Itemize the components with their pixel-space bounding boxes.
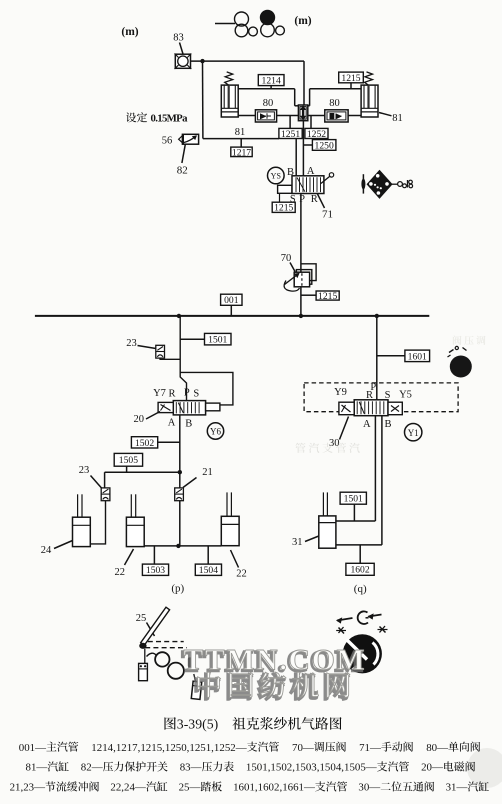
svg-text:A: A [363, 419, 371, 430]
svg-text:Y7: Y7 [153, 388, 166, 399]
svg-text:1504: 1504 [199, 565, 218, 576]
svg-text:1215: 1215 [318, 291, 337, 302]
svg-text:56: 56 [162, 136, 173, 147]
svg-text:81: 81 [392, 113, 403, 124]
svg-text:1215: 1215 [341, 73, 360, 84]
svg-text:71: 71 [322, 209, 333, 221]
svg-text:B: B [384, 419, 391, 430]
svg-text:(m): (m) [294, 15, 311, 27]
svg-text:S: S [193, 389, 199, 400]
svg-text:1217: 1217 [232, 147, 251, 158]
svg-text:0.15MPa: 0.15MPa [151, 112, 189, 124]
svg-text:R: R [168, 389, 175, 400]
svg-text:001: 001 [224, 295, 239, 306]
svg-text:1214: 1214 [262, 76, 281, 87]
svg-text:22: 22 [115, 567, 126, 578]
svg-text:1501: 1501 [208, 335, 227, 346]
svg-text:1602: 1602 [350, 565, 369, 576]
svg-text:1215: 1215 [274, 203, 293, 214]
svg-text:23: 23 [79, 465, 90, 476]
svg-text:82—: 82— [81, 762, 103, 774]
svg-text:1501: 1501 [344, 494, 363, 505]
svg-text:83—: 83— [180, 762, 202, 774]
svg-text:3-39(5): 3-39(5) [177, 717, 218, 733]
svg-text:23: 23 [126, 338, 137, 349]
svg-text:1250: 1250 [315, 140, 334, 151]
svg-text:20—: 20— [421, 762, 443, 774]
svg-text:1502: 1502 [135, 438, 154, 449]
svg-text:Y5: Y5 [399, 390, 412, 401]
svg-text:1252: 1252 [307, 129, 326, 140]
svg-text:1251: 1251 [281, 129, 300, 140]
svg-text:P: P [184, 388, 190, 399]
svg-text:21,23—: 21,23— [10, 782, 46, 794]
svg-text:(p): (p) [171, 583, 184, 595]
svg-text:24: 24 [41, 545, 52, 556]
svg-text:20: 20 [134, 414, 145, 425]
svg-text:R: R [311, 194, 318, 205]
svg-text:1214,1217,1215,1250,1251,1252—: 1214,1217,1215,1250,1251,1252— [91, 742, 246, 754]
svg-text:TTMN.COM: TTMN.COM [184, 644, 366, 676]
svg-text:71—: 71— [359, 742, 381, 754]
svg-text:Y9: Y9 [334, 387, 347, 398]
svg-text:82: 82 [177, 165, 188, 177]
svg-text:(m): (m) [121, 26, 138, 38]
svg-text:80—: 80— [426, 742, 448, 754]
svg-text:70: 70 [281, 253, 292, 264]
svg-text:25—: 25— [179, 782, 201, 794]
svg-text:80: 80 [329, 98, 340, 109]
svg-text:31—: 31— [446, 782, 468, 794]
svg-text:B: B [185, 419, 192, 430]
svg-text:81: 81 [235, 127, 246, 138]
svg-text:70—: 70— [292, 742, 314, 754]
svg-text:1601: 1601 [408, 351, 427, 362]
svg-text:31: 31 [292, 537, 303, 548]
svg-text:A: A [168, 418, 176, 429]
svg-text:P: P [299, 194, 305, 205]
svg-text:Y6: Y6 [210, 427, 221, 437]
svg-text:(q): (q) [354, 583, 367, 595]
svg-text:YS: YS [271, 172, 281, 181]
svg-text:80: 80 [263, 98, 274, 109]
svg-text:001—: 001— [19, 742, 46, 754]
svg-text:22,24—: 22,24— [110, 782, 146, 794]
svg-text:30—: 30— [358, 782, 380, 794]
svg-text:25: 25 [136, 613, 147, 624]
svg-text:21: 21 [202, 467, 213, 478]
svg-text:1505: 1505 [119, 455, 138, 466]
svg-text:1501,1502,1503,1504,1505—: 1501,1502,1503,1504,1505— [246, 762, 377, 774]
svg-text:1601,1602,1661—: 1601,1602,1661— [233, 782, 315, 794]
svg-text:83: 83 [173, 33, 184, 44]
svg-text:22: 22 [236, 569, 247, 580]
svg-text:81—: 81— [26, 762, 48, 774]
svg-text:1503: 1503 [146, 565, 165, 576]
svg-text:Y1: Y1 [408, 428, 419, 438]
